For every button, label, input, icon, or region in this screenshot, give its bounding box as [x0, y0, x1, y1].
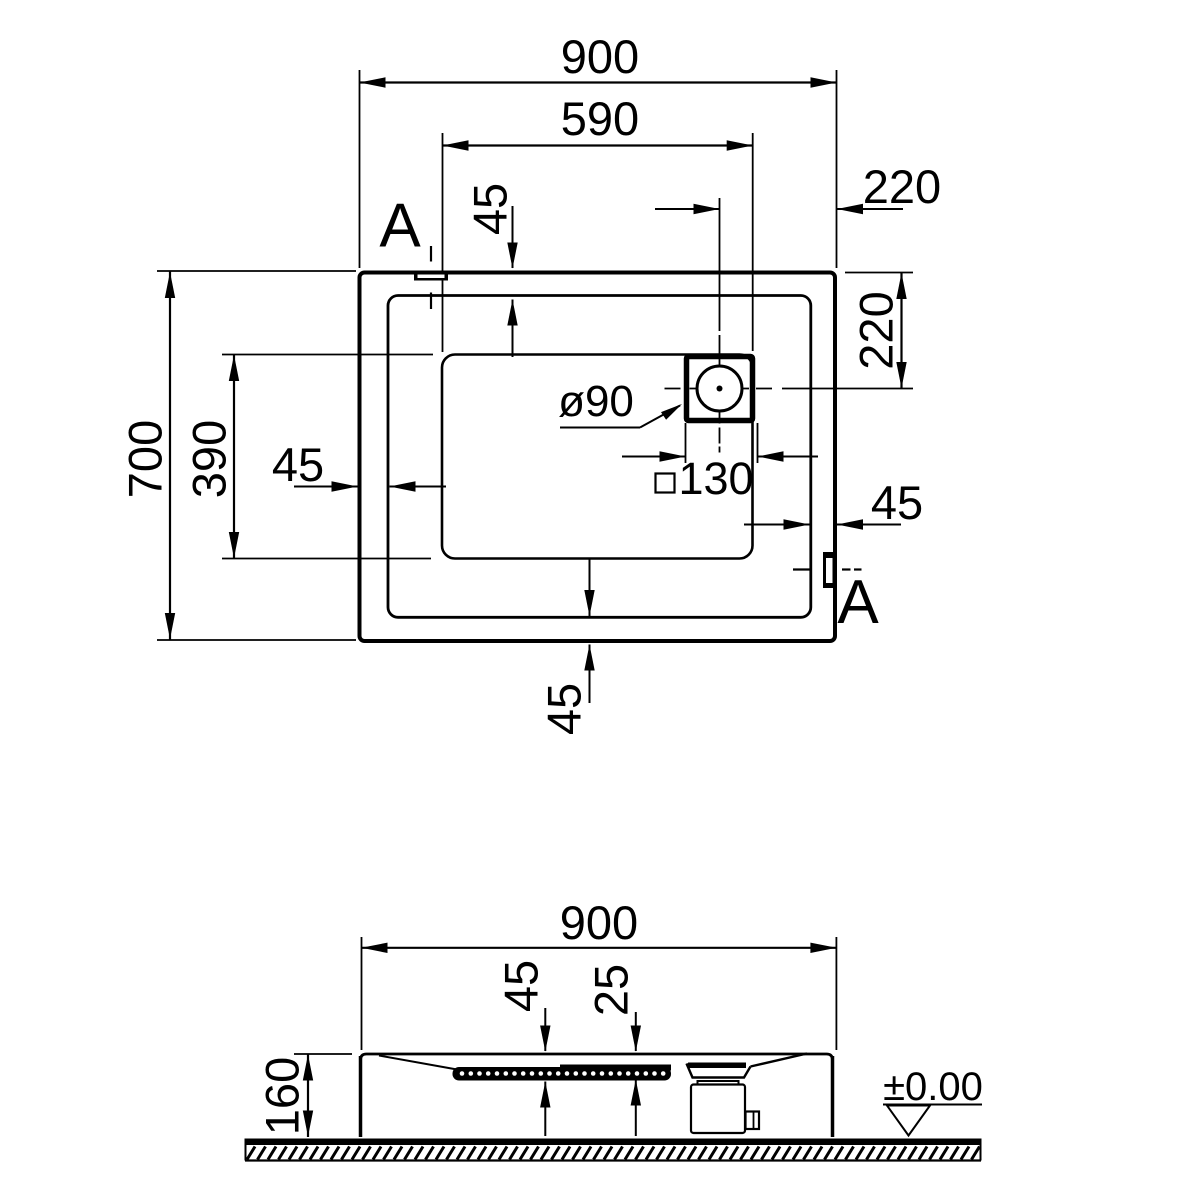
level marker: triangle [887, 1106, 930, 1136]
dimension 45 (top rim): down arrowhead [507, 243, 517, 269]
dimension 220 (horizontal): left arrow line [655, 208, 720, 210]
dimension 900 (section): left extension line [361, 937, 363, 1050]
dimension 45 (right wall): left arrow line [744, 524, 810, 526]
dimension 45 (right wall): right-pointing arrowhead [784, 519, 810, 529]
dimension 900 (top): left arrowhead [360, 77, 386, 87]
dimension 900 (top): left extension line [359, 70, 361, 268]
dimension 45 (left wall): left-pointing arrowhead [390, 481, 416, 491]
dimension 25 (floor thickness): upper arrow line [635, 1012, 637, 1051]
dimension 390: up arrowhead [229, 355, 239, 381]
dimension 900 (top): right arrowhead [811, 77, 837, 87]
dimension 700: down arrowhead [165, 613, 175, 639]
level marker: underline [883, 1104, 982, 1106]
drain recess outline (section) [687, 1064, 751, 1078]
drain vertical centerline / extension [719, 198, 721, 453]
dimension 130: left-pointing arrowhead [758, 451, 784, 461]
section mark A (bottom): cutting line dashes [793, 568, 811, 570]
dimension 160: top extension line [294, 1053, 352, 1055]
dimension 130: square symbol [656, 474, 675, 493]
dimension 220 (horizontal): left-pointing arrowhead [837, 204, 863, 214]
dimension 900 (top): dimension line [360, 81, 837, 83]
svg-text:160: 160 [256, 1057, 309, 1135]
dimension 900 (section): right arrowhead [810, 943, 836, 953]
drain center dot [717, 386, 723, 392]
dimension 390: down arrowhead [229, 532, 239, 558]
dimension 160: down arrowhead [303, 1111, 313, 1137]
dimension 390: top extension line [222, 354, 433, 356]
dimension 590: right extension line [752, 133, 754, 351]
dimension 45 (top rim): lower arrow line [512, 300, 514, 358]
dimension 700: top extension line [157, 270, 356, 272]
svg-text:900: 900 [561, 30, 639, 83]
dimension 900 (section): right extension line [835, 937, 837, 1050]
svg-text:A: A [379, 192, 421, 261]
dimension 130: left arrow line [622, 456, 686, 458]
svg-text:590: 590 [561, 92, 639, 145]
diameter 90 underline [560, 427, 640, 429]
dimension 25 (floor thickness): lower arrow line [635, 1080, 637, 1137]
floor slab hatching [247, 1147, 980, 1160]
dimension 220 (vertical): down arrowhead [896, 362, 906, 388]
dimension 220 (horizontal): right-pointing arrowhead [694, 204, 720, 214]
svg-text:45: 45 [495, 960, 548, 1012]
dimension 45 (bottom rim): lower arrow line [589, 645, 591, 704]
dimension 590: left arrowhead [443, 140, 469, 150]
drain square frame [687, 357, 753, 421]
svg-text:45: 45 [464, 183, 517, 235]
siphon outlet divider line [753, 1112, 755, 1130]
dimension 160: up arrowhead [303, 1055, 313, 1081]
dimension 390: dimension line [233, 355, 235, 559]
dimension 220 (vertical): dimension line [900, 273, 902, 389]
dimension 220 (horizontal): right arrow line [837, 208, 903, 210]
dimension 130: right-pointing arrowhead [660, 451, 686, 461]
svg-text:130: 130 [678, 453, 753, 504]
section mark A (top): cutting line dashes [430, 246, 432, 262]
anti-slip textured band (black with dots) [453, 1065, 672, 1081]
svg-text:ø90: ø90 [558, 377, 634, 426]
dimension 900 (section): dimension line [362, 947, 837, 949]
dimension 160: dimension line [307, 1054, 309, 1137]
dimension 590: right arrowhead [727, 140, 753, 150]
basin right slope line [751, 1054, 808, 1067]
svg-text:700: 700 [119, 420, 172, 498]
floor slab right end cap [980, 1139, 982, 1161]
drain horizontal centerline [665, 388, 914, 390]
dimension 45 (left wall): right-pointing arrowhead [332, 481, 358, 491]
siphon outlet stub [746, 1112, 760, 1130]
dimension 390: bottom extension line [222, 558, 431, 560]
dimension 25 (floor thickness): down arrowhead [631, 1026, 641, 1052]
svg-text:45: 45 [538, 683, 591, 735]
tray right wall (section) [831, 1056, 835, 1137]
dimension 45 (section depth): up arrowhead [540, 1082, 550, 1108]
basin floor rectangle [442, 355, 753, 559]
dimension 900 (top): right extension line [836, 70, 838, 268]
floor slab top band [245, 1139, 981, 1146]
dimension 130: right extension line [757, 423, 759, 463]
drain circle [697, 366, 742, 411]
dimension 700: up arrowhead [165, 272, 175, 298]
dimension 590: left extension line [442, 133, 444, 352]
inner wall rectangle [388, 296, 811, 618]
diameter 90 leader arrowhead [661, 404, 682, 420]
floor slab left end cap [245, 1139, 247, 1161]
basin left slope line [379, 1056, 457, 1070]
dimension 700: dimension line [169, 271, 171, 640]
svg-text:390: 390 [183, 420, 236, 498]
dimension 45 (section depth): upper arrow line [544, 1008, 546, 1051]
siphon body (section) [691, 1085, 745, 1134]
dimension 45 (top rim): up arrowhead [507, 300, 517, 326]
dimension 900 (section): left arrowhead [362, 943, 388, 953]
dimension 130: right arrow line [758, 456, 819, 458]
dimension 45 (top rim): upper arrow line [512, 206, 514, 268]
dimension 45 (left wall): left arrow line [294, 486, 358, 488]
dimension 130: left extension line [685, 423, 687, 463]
svg-text:25: 25 [585, 964, 638, 1016]
dimension 590: dimension line [443, 144, 753, 146]
dimension 220 (vertical): top extension line [845, 272, 913, 274]
svg-text:45: 45 [272, 438, 324, 491]
dimension 45 (section depth): lower arrow line [544, 1082, 546, 1137]
svg-text:45: 45 [871, 476, 923, 529]
dimension 45 (bottom rim): down arrowhead [584, 590, 594, 616]
section mark A (bottom): bold tick bar [823, 552, 836, 588]
dimension 45 (bottom rim): up arrowhead [584, 645, 594, 671]
svg-text:220: 220 [863, 160, 941, 213]
section mark A (top): bold tick bar [414, 272, 448, 281]
dimension 45 (right wall): right arrow line [837, 524, 901, 526]
outer tray rectangle (plan view) [360, 273, 836, 642]
drain cover bar (section) [688, 1063, 746, 1069]
siphon flange (section) [698, 1081, 739, 1085]
dimension 220 (vertical): up arrowhead [896, 273, 906, 299]
svg-text:±0.00: ±0.00 [883, 1065, 983, 1109]
floor slab bottom line [245, 1159, 981, 1161]
dimension 700: bottom extension line [157, 639, 356, 641]
tray rim line (section) [361, 1054, 833, 1060]
dimension 45 (left wall): right arrow line [390, 486, 447, 488]
svg-text:220: 220 [850, 291, 903, 369]
svg-text:A: A [837, 568, 879, 637]
dimension 45 (right wall): left-pointing arrowhead [837, 519, 863, 529]
dimension 45 (bottom rim): upper arrow line [589, 559, 591, 616]
dimension 25 (floor thickness): up arrowhead [631, 1080, 641, 1106]
diameter 90 leader line [640, 406, 680, 428]
tray left wall (section) [359, 1056, 363, 1137]
dimension 45 (section depth): down arrowhead [540, 1026, 550, 1052]
svg-text:900: 900 [560, 896, 638, 949]
